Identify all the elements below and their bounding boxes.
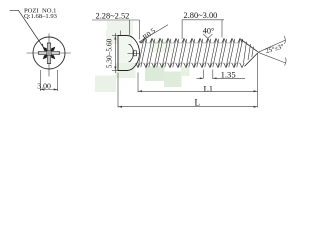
L dimension [118, 73, 258, 108]
watermark block 7 [164, 72, 182, 88]
thread lines on tip [244, 42, 254, 64]
svg-text:40°: 40° [203, 27, 214, 36]
pozi recess cross outline [39, 43, 60, 64]
recess profile arc in head [129, 45, 134, 62]
dim 1.35 [197, 70, 246, 80]
svg-text:L: L [195, 98, 201, 108]
head circle (front view) [33, 37, 65, 69]
watermark block 9 [150, 38, 172, 52]
front view horizontal centerline [27, 52, 72, 54]
dim 2.28~2.52 [92, 20, 140, 40]
watermark block 8 [181, 67, 190, 76]
40 degree thread angle mark [203, 34, 212, 39]
svg-text:3.00: 3.00 [37, 81, 51, 90]
svg-text:2.80~3.00: 2.80~3.00 [184, 11, 218, 20]
extension tick above head [119, 31, 121, 36]
screw head side view outline [118, 36, 140, 71]
dim 3.00 line [40, 89, 57, 91]
dim 2.80~3.00 [182, 20, 224, 39]
watermark block 6 [145, 67, 165, 82]
head centerline [128, 52, 141, 54]
L1 dimension [138, 54, 258, 108]
watermark block 3 [107, 21, 133, 35]
pozi wing SE [51, 55, 55, 60]
thread top crest teeth [142, 39, 242, 44]
dim 5.30-5.60 line [112, 33, 118, 73]
pozi wing NE [51, 47, 55, 52]
dim 3.00 arrows [40, 89, 44, 91]
tip angle extension lines [258, 36, 286, 66]
thread flank lines [138, 39, 243, 68]
pozi wing NW [43, 47, 47, 52]
recess center slot [133, 51, 137, 56]
R0.5 leader [139, 25, 168, 42]
watermark block 5 [116, 63, 136, 78]
thread top root segments [140, 42, 238, 44]
thread bottom crest teeth [136, 63, 244, 68]
svg-text:1.35: 1.35 [221, 69, 236, 79]
watermark block 2 [119, 36, 132, 70]
tip angle arc arrows [284, 36, 285, 44]
pozi wing SW [43, 55, 47, 60]
svg-text:2.28~2.52: 2.28~2.52 [96, 11, 130, 20]
front view vertical centerline [48, 34, 50, 77]
thread bottom root segments [140, 62, 240, 64]
leader line to recess [10, 10, 44, 47]
svg-text:25°±3°: 25°±3° [265, 43, 285, 55]
svg-text:Q:1.68–1.93: Q:1.68–1.93 [24, 13, 58, 20]
dim 3.00 extension lines [40, 70, 57, 91]
watermark block 1 [106, 30, 132, 44]
svg-text:5.30–5.60: 5.30–5.60 [105, 38, 114, 68]
screw tip cone [241, 40, 258, 67]
svg-text:L1: L1 [204, 84, 214, 94]
leader arrowhead [41, 44, 44, 48]
watermark block 4 [95, 76, 116, 93]
